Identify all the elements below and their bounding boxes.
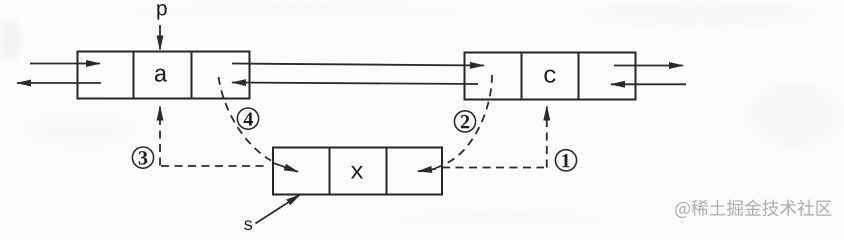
step number circle 1 (555, 150, 576, 171)
step 1 dashed wire: x.next up into c (442, 107, 547, 168)
wire: outgoing arrow from c to right (614, 65, 683, 67)
label s (244, 220, 252, 230)
step number circle 3 (132, 147, 153, 168)
step number circle 4 (237, 108, 258, 129)
step 4 dashed curve: a.next down to x (219, 77, 272, 161)
node a box (78, 52, 250, 99)
label a (155, 69, 167, 82)
wire: outgoing arrow from a to left (17, 82, 101, 84)
step 3 dashed wire: x.prior up into a (160, 107, 266, 167)
wire: c.prior to a (232, 83, 478, 85)
label p (157, 4, 166, 20)
step 2 arrowhead into x right cell (418, 169, 436, 172)
pointer s arrow (256, 195, 301, 224)
wire: a.next to c (232, 64, 484, 66)
node c box (465, 53, 636, 100)
label c (544, 70, 555, 83)
step 2 dashed curve: c.prior down to x (435, 75, 492, 168)
wire: incoming arrow into a (prior link from left) (30, 63, 100, 65)
step 3/4 shared arrowhead into x left cell (274, 163, 298, 172)
pointer p arrow (159, 25, 161, 50)
wire: incoming arrow into c (next link from right) (611, 83, 686, 85)
node x box (273, 148, 442, 195)
step number circle 2 (454, 111, 475, 132)
watermark (675, 200, 831, 218)
label x (351, 166, 363, 179)
